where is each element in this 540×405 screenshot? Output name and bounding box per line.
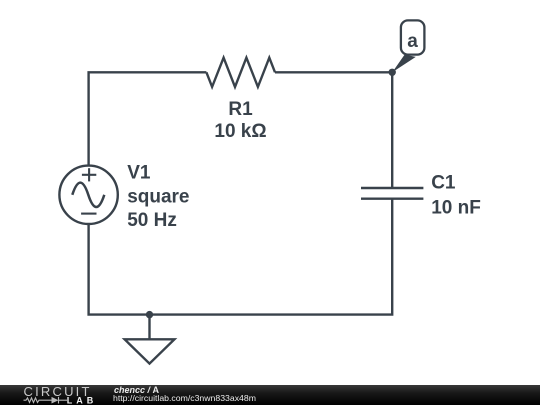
- wire: resistor right to node a: [275, 71, 392, 73]
- footer text line 2: [113, 393, 256, 403]
- svg-text:50 Hz: 50 Hz: [127, 210, 177, 231]
- svg-text:10 kΩ: 10 kΩ: [214, 121, 266, 142]
- node a flag: [392, 20, 424, 72]
- svg-text:R1: R1: [228, 99, 253, 120]
- svg-text:LAB: LAB: [67, 395, 98, 405]
- footer text line 1: [114, 385, 159, 395]
- voltage source V1: [59, 166, 117, 224]
- svg-text:V1: V1: [127, 162, 151, 183]
- svg-text:a: a: [407, 31, 418, 52]
- wire: node a down to capacitor C1 top plate: [391, 72, 393, 188]
- footer bar: [0, 385, 540, 405]
- svg-text:C1: C1: [431, 173, 456, 194]
- ground: [125, 315, 175, 364]
- wire: left branch top (V1 top to corner) and top wire to resistor: [89, 72, 207, 165]
- wire: capacitor bottom to bottom-right corner, bottom wire, and up to V1 bottom: [89, 199, 393, 315]
- svg-text:square: square: [127, 186, 189, 207]
- svg-text:10 nF: 10 nF: [431, 198, 481, 219]
- CircuitLab logo: [0, 385, 110, 405]
- resistor R1: [206, 58, 275, 87]
- junction dot at ground: [146, 311, 153, 318]
- capacitor C1: [361, 188, 423, 199]
- junction dot at node a: [389, 69, 396, 76]
